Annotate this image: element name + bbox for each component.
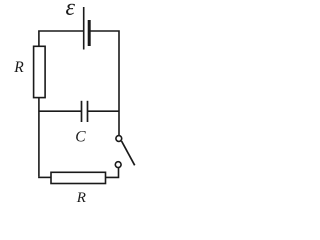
capacitor C right plate bbox=[87, 101, 89, 122]
battery E short plate bbox=[88, 20, 91, 46]
switch S lower contact bbox=[115, 162, 121, 168]
wire bottom-left to R2 bbox=[38, 176, 51, 178]
battery E long plate bbox=[83, 7, 85, 50]
svg-text:C: C bbox=[75, 129, 86, 146]
wire top-right horizontal bbox=[91, 31, 120, 135]
svg-text:R: R bbox=[13, 59, 24, 76]
switch S upper contact bbox=[116, 136, 122, 142]
wire capacitor right bbox=[88, 110, 120, 112]
capacitor C left plate bbox=[81, 101, 83, 122]
wire switch to R2 bbox=[106, 168, 119, 178]
switch S blade bbox=[122, 141, 135, 165]
resistor R1 bbox=[34, 46, 46, 97]
wire left vertical below R1 bbox=[38, 98, 40, 177]
svg-text:ε: ε bbox=[66, 0, 76, 21]
wire top-left horizontal bbox=[39, 31, 84, 47]
wire capacitor left bbox=[39, 110, 82, 112]
resistor R2 bbox=[51, 172, 106, 183]
svg-text:R: R bbox=[76, 190, 86, 206]
